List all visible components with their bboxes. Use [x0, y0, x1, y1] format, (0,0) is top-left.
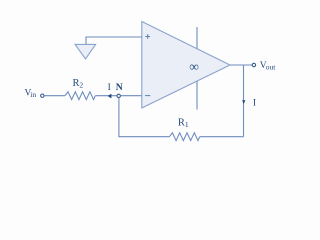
op-amp U1 body — [142, 22, 230, 109]
wire + input to ground — [86, 37, 142, 45]
wire node N to inverting input — [121, 95, 142, 97]
label Vout — [260, 61, 277, 71]
svg-text:I: I — [108, 82, 111, 93]
resistor R2 — [65, 92, 95, 100]
label Vin — [25, 89, 37, 99]
svg-text:in: in — [30, 90, 36, 99]
wire R1 to node N — [119, 98, 169, 137]
label R2 — [73, 78, 84, 89]
resistor R1 — [169, 133, 199, 141]
wire R2 to node N — [95, 95, 117, 97]
svg-text:R: R — [178, 118, 185, 129]
terminal Vout — [252, 63, 255, 66]
label R1 — [178, 118, 189, 129]
terminal Vin — [41, 94, 44, 97]
negative supply pin — [196, 81, 198, 110]
svg-text:I: I — [253, 98, 256, 109]
wire output — [230, 64, 252, 66]
wire output node down to R1 — [200, 136, 244, 138]
current arrow I pointing down — [242, 100, 245, 104]
op-amp + input marker — [145, 34, 150, 39]
wire feedback vertical from output node — [243, 65, 245, 137]
svg-text:2: 2 — [79, 80, 83, 89]
positive supply pin — [196, 27, 198, 49]
current arrow I pointing left into R2 — [108, 94, 112, 99]
ground — [75, 44, 96, 59]
svg-text:N: N — [116, 82, 123, 93]
op-amp - input marker — [145, 95, 150, 97]
svg-text:∞: ∞ — [189, 59, 199, 74]
node N — [117, 94, 120, 97]
svg-text:out: out — [266, 62, 277, 71]
wire Vin to R2 — [44, 95, 65, 97]
svg-text:1: 1 — [185, 120, 189, 129]
